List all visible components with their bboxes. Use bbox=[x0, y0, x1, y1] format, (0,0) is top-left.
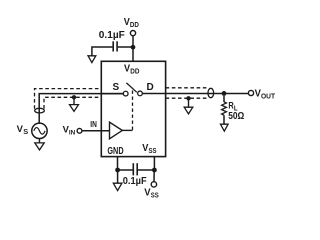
wire GND junction to C2 left plate bbox=[118, 169, 133, 171]
ground (left coax shield) bbox=[70, 105, 79, 112]
wire resistor to ground bbox=[223, 115, 225, 124]
dashed control line from driver to switch bbox=[132, 88, 134, 130]
svg-text:DD: DD bbox=[130, 68, 139, 75]
wire C2 right plate to VSS junction bbox=[138, 169, 154, 171]
label VS bbox=[17, 124, 29, 136]
svg-text:D: D bbox=[147, 82, 154, 93]
junction dot VSS node bbox=[152, 168, 157, 173]
switch D contact (open circle) bbox=[138, 91, 143, 96]
coax shield top dashed (right cable) bbox=[166, 87, 208, 89]
svg-text:0.1µF: 0.1µF bbox=[123, 176, 147, 187]
wire GND junction to ground bbox=[117, 170, 119, 183]
wire C1 left plate to ground corner bbox=[92, 47, 113, 56]
wire VSS pin to junction bbox=[153, 157, 155, 170]
driver buffer A1 (triangle) bbox=[110, 122, 123, 139]
terminal VDD (open circle) bbox=[130, 30, 135, 35]
wire center conductor (left cable) bbox=[39, 94, 123, 123]
wire driver output to control corner bbox=[122, 129, 132, 131]
capacitor C2 0.1uF (VSS bypass) plates bbox=[133, 163, 137, 175]
wire VOUT junction to resistor bbox=[223, 96, 225, 102]
label VSS (bottom) bbox=[144, 187, 159, 199]
wire C1 right plate to VDD junction bbox=[118, 46, 131, 48]
svg-text:50Ω: 50Ω bbox=[228, 111, 244, 122]
wire VDD terminal to junction bbox=[132, 36, 134, 47]
svg-text:SS: SS bbox=[151, 192, 159, 199]
svg-text:IN: IN bbox=[69, 129, 76, 136]
coax shield outer dashed (left cable) bbox=[35, 89, 101, 109]
wire shield dot to ground (right) bbox=[188, 100, 190, 107]
coax shield inner dashed (left cable) bbox=[44, 97, 100, 108]
junction dot GND node bbox=[115, 168, 120, 173]
ground (below VS) bbox=[35, 143, 44, 150]
label VSS (inside box) bbox=[142, 143, 157, 155]
wire VIN terminal to driver input bbox=[82, 130, 110, 132]
label VOUT bbox=[255, 88, 276, 100]
coax opening ellipse (left cable end) bbox=[35, 108, 45, 113]
resistor RL 50ohm (zigzag) bbox=[222, 102, 227, 115]
junction dot shield ground (left) bbox=[72, 95, 76, 99]
terminal VOUT (open circle) bbox=[248, 90, 253, 95]
svg-text:GND: GND bbox=[107, 146, 123, 157]
svg-text:SS: SS bbox=[149, 148, 157, 155]
junction dot shield ground (right) bbox=[186, 96, 190, 100]
terminal VSS (open circle) bbox=[151, 182, 156, 187]
wire center conductor (right cable) to VOUT bbox=[166, 93, 249, 95]
label VDD (inside box) bbox=[124, 64, 140, 76]
svg-text:0.1µF: 0.1µF bbox=[99, 30, 125, 41]
IC box outline U1 bbox=[101, 61, 165, 156]
switch lever bbox=[126, 83, 137, 93]
terminal VIN (open circle) bbox=[77, 128, 82, 133]
capacitor C1 0.1uF (VDD bypass) plates bbox=[113, 41, 117, 51]
ground (below GND pin) bbox=[113, 183, 122, 190]
source VS (sine generator circle) bbox=[32, 123, 47, 138]
junction dot VOUT node bbox=[222, 91, 227, 96]
label VIN bbox=[63, 125, 76, 137]
svg-text:S: S bbox=[23, 129, 28, 136]
wire D contact to box right edge bbox=[142, 93, 165, 95]
wire box left edge to S contact bbox=[101, 93, 123, 95]
svg-text:S: S bbox=[113, 82, 120, 93]
label VDD (top terminal) bbox=[124, 17, 139, 29]
coax shield bottom dashed (right cable) bbox=[166, 97, 208, 99]
wire VSS junction to VSS terminal bbox=[153, 170, 155, 182]
label RL bbox=[228, 101, 238, 113]
ground (right coax shield) bbox=[184, 107, 193, 114]
svg-text:DD: DD bbox=[130, 22, 139, 29]
wire VDD junction to box pin bbox=[132, 47, 134, 61]
ground (top left, C1) bbox=[88, 56, 96, 63]
svg-text:IN: IN bbox=[90, 120, 97, 129]
wire GND pin to junction bbox=[117, 157, 119, 170]
switch S contact (open circle) bbox=[123, 91, 128, 96]
wire VS to ground bbox=[38, 139, 40, 143]
ground (below RL) bbox=[221, 124, 229, 131]
svg-text:OUT: OUT bbox=[261, 93, 276, 100]
coax opening ellipse (right cable end) bbox=[208, 88, 214, 97]
wire shield dot to ground (left) bbox=[73, 99, 75, 105]
junction dot VDD node bbox=[131, 45, 136, 50]
